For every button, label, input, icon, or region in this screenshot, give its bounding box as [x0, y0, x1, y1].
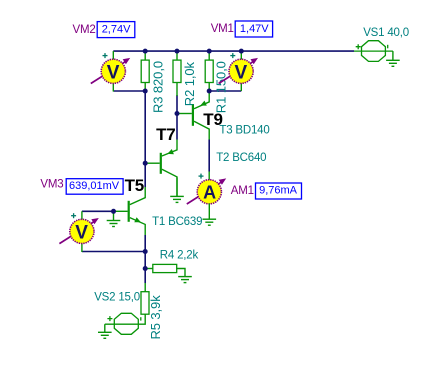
resistor R3 [141, 51, 149, 91]
value box VM3 [66, 179, 123, 195]
junction node rail-R2 [175, 49, 180, 54]
ground AM1 [203, 203, 217, 225]
junction node rail-R1 [207, 49, 212, 54]
svg-text:R1 150,0: R1 150,0 [214, 61, 229, 113]
wire AM1 top lead [208, 172, 210, 181]
svg-text:VM2: VM2 [73, 24, 96, 36]
ground VS2 [98, 324, 112, 338]
transistor T5 (NPN) [128, 187, 146, 235]
wire T9 collector down to AM1 [208, 140, 210, 172]
wire top rail [113, 50, 354, 52]
junction node rail-VM1 [239, 49, 244, 54]
resistor R4 [145, 264, 185, 276]
wire node R3 bottom to T7 base node [144, 91, 146, 163]
junction node emitter-VM3 [143, 249, 148, 254]
junction node emitter-R4 [143, 266, 148, 271]
ground VS1 [386, 51, 400, 66]
wire T7 emitter up to node [176, 114, 178, 140]
svg-text:R4 2,2k: R4 2,2k [160, 249, 199, 261]
junction node T5 base [111, 209, 116, 214]
svg-text:VS1 40,0: VS1 40,0 [363, 27, 409, 39]
wire VM3 top lead [81, 211, 83, 219]
junction node R3-VM2 [143, 89, 148, 94]
wire VM3 top to T5 base node [82, 210, 114, 212]
junction node rail-R3 [143, 49, 148, 54]
resistor R5 [138, 283, 149, 324]
wire VM3 bottom to emitter node [82, 251, 145, 253]
svg-text:VM1: VM1 [211, 23, 234, 35]
ground T7 collector [170, 178, 184, 203]
svg-text:T5: T5 [125, 176, 144, 195]
voltmeter VM2 [91, 53, 130, 83]
voltage source VS1 [354, 41, 393, 62]
wire T5 emitter down to R5 [144, 235, 146, 283]
voltmeter VM3 [59, 213, 98, 243]
svg-text:T7: T7 [156, 125, 175, 144]
junction node T9 base [175, 111, 180, 116]
svg-text:R2 1,0k: R2 1,0k [182, 61, 197, 106]
svg-text:VS2 15,0: VS2 15,0 [94, 292, 140, 304]
svg-text:V: V [235, 62, 248, 83]
resistor R2 [173, 51, 181, 96]
svg-text:9,76mA: 9,76mA [259, 185, 298, 197]
svg-text:AM1: AM1 [231, 185, 254, 197]
junction node R1-T9 [207, 89, 212, 94]
svg-text:V: V [107, 62, 120, 83]
junction node T7 base [143, 161, 148, 166]
value box VM2 [97, 22, 135, 38]
wire VM1 bottom lead [240, 83, 242, 91]
wire VM2 top lead [112, 51, 114, 59]
wire VM2 bottom to node [113, 90, 145, 92]
ammeter AM1 [187, 174, 226, 204]
wire VM1 top lead [240, 51, 242, 59]
wire R2 bottom to T9 base node [176, 95, 178, 114]
svg-text:T1 BC639: T1 BC639 [152, 216, 202, 228]
svg-text:639,01mV: 639,01mV [69, 180, 120, 192]
svg-text:1,47V: 1,47V [240, 23, 269, 35]
svg-text:T2 BC640: T2 BC640 [216, 152, 266, 164]
transistor T7 (PNP) [145, 140, 177, 197]
svg-text:VM3: VM3 [40, 178, 63, 190]
value box VM1 [235, 21, 272, 37]
ground R4 [178, 277, 192, 283]
wire R1 bottom to VM1 bottom [209, 90, 241, 92]
svg-text:T3 BD140: T3 BD140 [219, 124, 269, 136]
value box AM1 [256, 183, 302, 199]
ground at T5 base (VM3) [107, 212, 121, 227]
voltmeter VM1 [219, 53, 258, 83]
svg-text:2,74V: 2,74V [102, 23, 131, 35]
svg-text:R5 3,9k: R5 3,9k [148, 295, 163, 340]
svg-text:A: A [203, 183, 216, 203]
svg-text:V: V [75, 222, 88, 243]
resistor R1 [205, 51, 213, 91]
transistor T9 (PNP) [177, 92, 209, 140]
wire T5 base lead [114, 210, 128, 212]
wire T5 collector up to T7 base node [144, 163, 146, 187]
svg-text:R3 820,0: R3 820,0 [150, 61, 165, 113]
voltage source VS2 [105, 313, 141, 334]
